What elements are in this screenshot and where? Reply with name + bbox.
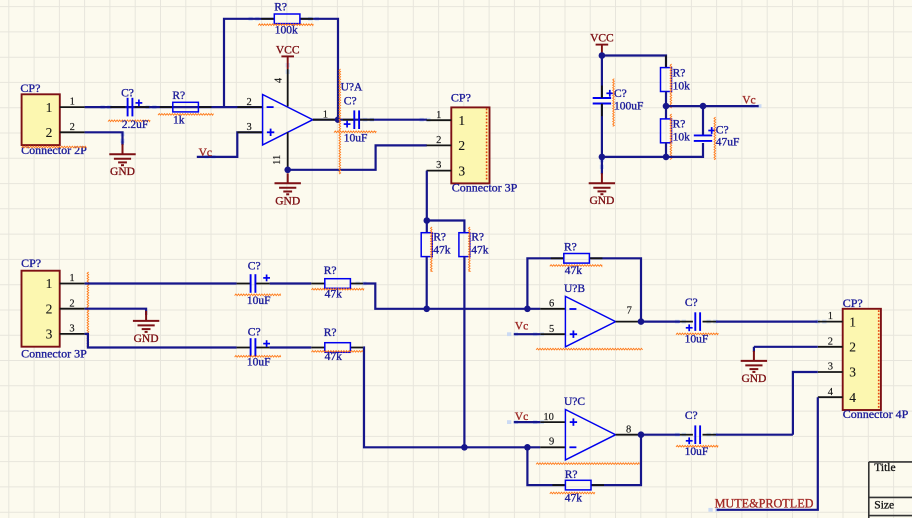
svg-text:1: 1 [849, 314, 856, 329]
svg-text:10uF: 10uF [247, 357, 271, 369]
svg-text:Connector 2P: Connector 2P [21, 143, 87, 157]
svg-text:3: 3 [69, 324, 74, 335]
svg-text:Vc: Vc [199, 147, 212, 159]
svg-text:3: 3 [458, 163, 465, 178]
svg-text:1k: 1k [173, 114, 185, 126]
svg-text:2: 2 [828, 336, 833, 347]
svg-text:47k: 47k [565, 493, 583, 505]
svg-text:Title: Title [874, 462, 895, 474]
svg-text:VCC: VCC [590, 33, 614, 45]
svg-text:C?: C? [716, 125, 729, 137]
svg-text:Connector 3P: Connector 3P [21, 347, 87, 361]
svg-text:C?: C? [614, 88, 627, 100]
svg-text:R?: R? [324, 327, 337, 339]
svg-text:7: 7 [627, 306, 632, 317]
svg-text:2: 2 [247, 97, 252, 108]
svg-text:VCC: VCC [276, 44, 300, 56]
svg-text:R?: R? [564, 241, 577, 253]
svg-text:2.2uF: 2.2uF [122, 119, 149, 131]
svg-text:3: 3 [849, 365, 856, 380]
svg-text:GND: GND [741, 373, 766, 385]
svg-text:1: 1 [323, 109, 328, 120]
svg-text:C?: C? [248, 326, 261, 338]
svg-text:GND: GND [589, 195, 614, 207]
svg-text:11: 11 [272, 155, 283, 165]
svg-text:CP?: CP? [451, 90, 471, 104]
svg-text:47k: 47k [433, 244, 451, 256]
svg-text:R?: R? [673, 119, 686, 131]
svg-text:1: 1 [436, 110, 441, 121]
svg-text:U?B: U?B [564, 283, 585, 295]
svg-text:100uF: 100uF [614, 101, 643, 113]
svg-text:4: 4 [849, 390, 856, 405]
svg-text:CP?: CP? [20, 81, 40, 95]
svg-text:47k: 47k [471, 244, 489, 256]
svg-text:10uF: 10uF [344, 132, 368, 144]
svg-text:MUTE&PROTLED: MUTE&PROTLED [715, 497, 814, 511]
svg-text:1: 1 [46, 276, 53, 291]
svg-text:10k: 10k [673, 81, 691, 93]
svg-text:Size: Size [874, 500, 894, 512]
svg-text:10uF: 10uF [685, 446, 709, 458]
svg-text:R?: R? [172, 90, 185, 102]
svg-text:U?A: U?A [341, 81, 363, 93]
svg-text:10uF: 10uF [247, 295, 271, 307]
svg-text:5: 5 [549, 324, 554, 335]
svg-text:GND: GND [134, 333, 159, 345]
svg-text:C?: C? [248, 261, 261, 273]
svg-text:1: 1 [69, 273, 74, 284]
svg-text:C?: C? [685, 410, 698, 422]
svg-text:1: 1 [46, 100, 53, 115]
svg-text:3: 3 [247, 122, 252, 133]
svg-text:3: 3 [828, 362, 833, 373]
svg-text:47k: 47k [325, 289, 343, 301]
svg-text:GND: GND [275, 195, 300, 207]
svg-text:C?: C? [121, 87, 134, 99]
svg-text:R?: R? [324, 265, 337, 277]
svg-text:R?: R? [673, 68, 686, 80]
svg-text:1: 1 [458, 113, 465, 128]
svg-text:R?: R? [471, 232, 484, 244]
svg-text:2: 2 [70, 122, 75, 133]
svg-text:C?: C? [685, 297, 698, 309]
svg-text:10uF: 10uF [685, 334, 709, 346]
svg-text:GND: GND [110, 166, 135, 178]
svg-text:CP?: CP? [21, 256, 41, 270]
svg-text:R?: R? [274, 1, 287, 13]
svg-text:CP?: CP? [843, 296, 863, 310]
svg-text:Connector 4P: Connector 4P [843, 407, 909, 421]
svg-text:R?: R? [433, 232, 446, 244]
svg-text:4: 4 [274, 77, 285, 83]
svg-text:2: 2 [46, 301, 53, 316]
svg-text:Vc: Vc [515, 411, 528, 423]
svg-text:2: 2 [458, 138, 465, 153]
svg-text:1: 1 [828, 311, 833, 322]
svg-text:R?: R? [565, 469, 578, 481]
svg-text:4: 4 [828, 387, 834, 398]
svg-text:2: 2 [46, 125, 53, 140]
svg-text:1: 1 [70, 97, 75, 108]
svg-text:2: 2 [436, 135, 441, 146]
svg-text:47k: 47k [325, 351, 343, 363]
svg-text:100k: 100k [275, 24, 298, 36]
svg-text:3: 3 [46, 327, 53, 342]
svg-text:Connector 3P: Connector 3P [452, 180, 518, 194]
svg-text:9: 9 [549, 437, 554, 448]
svg-text:47uF: 47uF [716, 137, 740, 149]
svg-text:10k: 10k [673, 132, 691, 144]
svg-text:3: 3 [436, 160, 441, 171]
svg-text:8: 8 [626, 424, 631, 435]
svg-text:C?: C? [344, 96, 357, 108]
svg-text:2: 2 [69, 298, 74, 309]
svg-text:6: 6 [549, 299, 554, 310]
svg-text:U?C: U?C [564, 396, 585, 408]
svg-text:2: 2 [849, 340, 856, 355]
svg-text:Vc: Vc [515, 321, 528, 333]
svg-text:47k: 47k [565, 265, 583, 277]
svg-text:Vc: Vc [742, 95, 755, 107]
svg-text:10: 10 [543, 412, 554, 423]
